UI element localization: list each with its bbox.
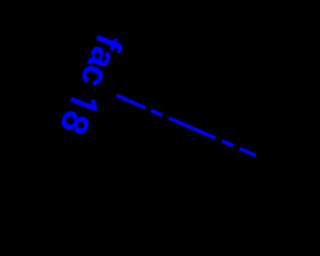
digit 1 <box>71 99 96 110</box>
rotated text label "fac 18" <box>52 29 131 141</box>
blue dash-dot line <box>116 95 258 156</box>
svg-text:8: 8 <box>52 105 99 141</box>
